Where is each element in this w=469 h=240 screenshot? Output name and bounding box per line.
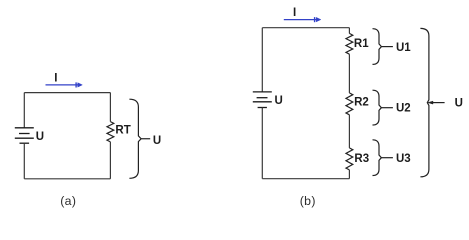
wire: right upper (a) [109,93,111,122]
svg-text:U: U [275,95,283,107]
resistor RT [107,122,114,142]
wire: bottom (a) [24,178,110,180]
brace (a) [129,99,141,178]
resistor R1 [346,33,353,54]
svg-text:R1: R1 [354,38,369,50]
svg-text:(a): (a) [60,194,76,208]
current arrow I (a) [46,82,83,87]
wire: right seg3 (b) [348,115,350,148]
wire: left lower (a) [23,143,25,179]
wire: left lower (b) [261,108,263,179]
svg-text:U: U [455,97,463,109]
wire: right seg1 (b) [348,28,350,34]
wire: top (b) [262,27,349,29]
resistor R2 [346,93,353,115]
resistor R3 [346,148,353,170]
battery U (b) [253,92,272,108]
wire: top (a) [24,92,110,94]
svg-text:U2: U2 [396,102,411,114]
wire: connector U1 [381,46,393,48]
brace U (b, overall) [420,28,429,176]
svg-text:U3: U3 [396,153,411,165]
brace U3 [373,140,382,176]
wire: connector U (b) [428,101,445,104]
svg-text:I: I [54,73,57,85]
current arrow I (b) [284,17,321,22]
battery U (a) [15,128,34,143]
svg-text:U: U [36,131,44,143]
wire: right seg4 (b) [348,170,350,179]
wire: left upper (b) [261,28,263,92]
wire: left upper (a) [23,93,25,128]
svg-text:(b): (b) [300,194,316,208]
svg-text:R2: R2 [354,97,369,109]
brace U1 [373,29,382,65]
svg-text:RT: RT [115,124,130,136]
wire: bottom (b) [262,178,349,180]
svg-text:U: U [153,135,161,147]
svg-text:R3: R3 [354,153,369,165]
wire: brace connector (a) [141,138,150,140]
brace U2 [373,90,382,125]
wire: connector U3 [381,157,393,159]
svg-text:I: I [293,7,296,19]
svg-text:U1: U1 [396,42,411,54]
wire: connector U2 [381,107,393,109]
wire: right lower (a) [109,142,111,179]
wire: right seg2 (b) [348,54,350,93]
